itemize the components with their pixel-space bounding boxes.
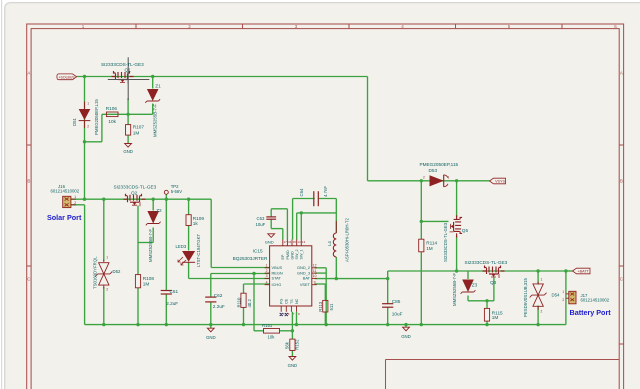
wire: [127, 98, 129, 125]
resistor R113: [323, 300, 328, 312]
capacitor C62: [205, 297, 216, 302]
transistor Q3: [483, 266, 505, 279]
svg-text:VSYS: VSYS: [495, 180, 505, 184]
wire: [335, 213, 337, 233]
svg-text:PESD5V0S1UB,315: PESD5V0S1UB,315: [523, 277, 528, 317]
svg-text:601214510002: 601214510002: [581, 298, 610, 303]
wire: [271, 208, 287, 210]
junction: [102, 323, 105, 326]
capacitor C63: [266, 217, 276, 219]
zener Z2: [146, 211, 161, 225]
svg-text:1: 1: [448, 176, 450, 180]
wire: [296, 213, 298, 240]
svg-text:TS: TS: [290, 299, 294, 304]
wire: [405, 325, 407, 328]
wire: [188, 199, 190, 215]
no-connect marks: [280, 313, 288, 316]
svg-text:IC15: IC15: [253, 249, 263, 254]
svg-text:NC: NC: [295, 298, 299, 304]
svg-text:Z3: Z3: [472, 282, 478, 287]
junction: [485, 323, 488, 326]
wire: [456, 181, 458, 217]
svg-text:+BATT: +BATT: [578, 270, 590, 274]
svg-text:Q3: Q3: [490, 280, 497, 285]
svg-text:14: 14: [297, 240, 301, 244]
svg-text:2: 2: [74, 201, 76, 205]
wire: [270, 219, 272, 228]
wire: [297, 212, 337, 214]
svg-text:B: B: [27, 179, 30, 184]
junction: [126, 113, 129, 116]
wire: [152, 199, 154, 210]
svg-text:10: 10: [313, 274, 317, 278]
wire: [211, 267, 269, 269]
svg-text:CE: CE: [285, 298, 289, 304]
junction: [325, 323, 328, 326]
junction: [300, 211, 303, 214]
wire: [152, 228, 154, 243]
svg-text:BQ25303JRTER: BQ25303JRTER: [233, 256, 268, 261]
wire: [189, 278, 270, 280]
svg-text:10uF: 10uF: [392, 311, 403, 316]
svg-text:GND: GND: [123, 149, 133, 154]
ground: [268, 234, 275, 238]
svg-text:2.2uF: 2.2uF: [213, 304, 225, 309]
resistor R106: [106, 112, 118, 117]
svg-text:10k: 10k: [268, 335, 276, 340]
svg-text:12: 12: [313, 264, 317, 268]
wire: [85, 324, 566, 326]
svg-text:VBUS: VBUS: [272, 265, 283, 270]
wire: [244, 283, 270, 285]
ground: [403, 327, 410, 331]
junction: [420, 220, 423, 223]
svg-text:1: 1: [562, 290, 564, 294]
svg-text:PG: PG: [280, 299, 284, 304]
wire: [210, 199, 212, 267]
resistor R107: [126, 125, 131, 136]
ground: [125, 144, 132, 148]
wire: [456, 236, 458, 271]
junction: [136, 323, 139, 326]
svg-text:Q2: Q2: [131, 190, 138, 195]
svg-text:40.2: 40.2: [247, 299, 252, 308]
wire: [537, 306, 539, 325]
svg-text:3: 3: [266, 274, 268, 278]
svg-text:Battery Port: Battery Port: [570, 308, 612, 317]
junction: [102, 198, 105, 201]
svg-text:1: 1: [74, 195, 76, 199]
junction: [386, 323, 389, 326]
junction: [83, 198, 86, 201]
svg-text:D52: D52: [113, 269, 121, 274]
svg-text:GND: GND: [265, 240, 274, 245]
wire: [467, 296, 469, 301]
wire: [84, 77, 86, 200]
svg-text:511: 511: [329, 303, 334, 310]
svg-text:1: 1: [266, 264, 268, 268]
svg-text:Z1: Z1: [155, 83, 161, 88]
wire: [421, 220, 448, 222]
wire: [315, 267, 327, 269]
net label VSYS: [490, 178, 506, 184]
svg-text:C61: C61: [170, 289, 179, 294]
junction: [536, 269, 539, 272]
ground: [207, 328, 214, 332]
net label +SOLBUS: [57, 74, 77, 80]
svg-text:GND: GND: [206, 335, 216, 340]
svg-text:R113: R113: [318, 301, 323, 312]
transistor Q1: [108, 57, 150, 100]
junction: [335, 277, 338, 280]
wire: [165, 294, 167, 325]
svg-text:REGN: REGN: [272, 270, 283, 275]
svg-text:R107: R107: [133, 124, 145, 129]
svg-text:TS0160DYFRQL: TS0160DYFRQL: [93, 256, 98, 289]
zener Z3: [461, 280, 476, 294]
svg-text:Z2: Z2: [156, 208, 162, 213]
svg-text:A: A: [27, 71, 30, 76]
svg-text:ICHG: ICHG: [272, 282, 282, 287]
svg-text:Solar Port: Solar Port: [47, 213, 82, 222]
junction: [455, 179, 458, 182]
svg-text:MMSZ5255B-7-F: MMSZ5255B-7-F: [153, 104, 158, 137]
svg-text:2: 2: [106, 288, 108, 292]
svg-text:4: 4: [266, 280, 268, 284]
svg-text:15: 15: [293, 240, 297, 244]
junction: [485, 299, 488, 302]
wire: [152, 104, 154, 115]
wire: [335, 199, 337, 213]
resistor R110: [241, 293, 246, 307]
junction: [386, 277, 389, 280]
svg-text:GND: GND: [401, 334, 411, 339]
svg-text:SI2333CDS-TL-GE3: SI2333CDS-TL-GE3: [443, 222, 448, 262]
junction: [291, 329, 294, 332]
svg-text:MMSZ5255B-7-F: MMSZ5255B-7-F: [148, 229, 153, 262]
wire: [211, 273, 270, 275]
capacitor C61: [161, 291, 172, 295]
wire: [103, 199, 105, 261]
wire: [188, 263, 190, 279]
wire: [127, 135, 129, 143]
svg-text:1k: 1k: [193, 221, 199, 226]
wire: [243, 284, 245, 293]
wire: [420, 252, 422, 325]
wire: [254, 330, 264, 332]
wire: [71, 204, 85, 206]
wire: [324, 312, 326, 325]
svg-text:GND: GND: [290, 251, 294, 260]
wire: [71, 198, 211, 200]
junction: [165, 198, 168, 201]
wire: [486, 321, 488, 325]
svg-text:SW_2: SW_2: [295, 249, 299, 259]
wire: [467, 271, 469, 279]
svg-text:MMSZ5255B-7-F: MMSZ5255B-7-F: [452, 273, 457, 306]
svg-text:GND_3: GND_3: [297, 270, 310, 275]
junction: [165, 323, 168, 326]
svg-text:C64: C64: [299, 188, 304, 196]
wire: [138, 242, 153, 244]
wire: [387, 271, 389, 304]
wire: [188, 226, 190, 251]
wire: [291, 351, 293, 357]
svg-text:ASPI-0530HI-LR0H-T2: ASPI-0530HI-LR0H-T2: [345, 217, 350, 262]
svg-text:B: B: [620, 179, 623, 184]
svg-text:2: 2: [87, 125, 89, 129]
svg-text:C85: C85: [392, 299, 401, 304]
resistor R109: [186, 215, 191, 226]
diode D51: [79, 102, 91, 129]
svg-text:9: 9: [314, 280, 316, 284]
LED LED3: [178, 251, 195, 265]
junction: [420, 179, 423, 182]
svg-text:1M: 1M: [143, 281, 150, 286]
svg-text:601214510002: 601214510002: [51, 189, 80, 194]
net label +BATT: [573, 268, 591, 274]
svg-text:2: 2: [541, 310, 543, 314]
inductor L4: [333, 221, 336, 257]
wire: [335, 257, 337, 279]
connector J16: [63, 196, 76, 207]
wire: [103, 287, 105, 325]
wire: [318, 198, 336, 200]
wire: [152, 77, 154, 89]
wire: [291, 312, 293, 339]
wire: [486, 301, 488, 309]
svg-text:56k: 56k: [285, 341, 290, 349]
wire: [388, 270, 566, 272]
wire: [137, 288, 139, 325]
junction: [83, 140, 86, 143]
wire: [286, 209, 288, 240]
svg-text:11: 11: [313, 269, 317, 273]
wire: [84, 205, 86, 325]
wire: [315, 272, 327, 274]
svg-text:BAT: BAT: [303, 276, 311, 281]
svg-text:EP: EP: [281, 254, 285, 259]
svg-text:Q1: Q1: [125, 68, 132, 73]
junction: [455, 269, 458, 272]
svg-text:17: 17: [283, 240, 287, 244]
svg-text:SI2333CDS-TL-GE3: SI2333CDS-TL-GE3: [465, 260, 508, 265]
wire: [325, 268, 327, 325]
junction: [151, 75, 154, 78]
resistor R115: [484, 308, 489, 321]
wire: [243, 307, 245, 324]
ground: [289, 357, 296, 361]
wire: [165, 195, 167, 291]
resistor R114: [419, 239, 424, 252]
transistor Q2: [124, 194, 146, 207]
svg-text:A: A: [620, 71, 623, 76]
svg-text:1M: 1M: [426, 246, 433, 251]
svg-text:GND: GND: [288, 363, 298, 368]
op-amp U1 charger IC15: [265, 240, 317, 312]
wire: [566, 270, 573, 272]
svg-text:R110: R110: [236, 297, 241, 308]
svg-text:SI2333CDS-TL-GE3: SI2333CDS-TL-GE3: [114, 184, 157, 189]
wire: [315, 278, 388, 280]
svg-text:R151: R151: [262, 323, 273, 328]
svg-text:+SOLBUS: +SOLBUS: [58, 76, 75, 80]
svg-text:C63: C63: [257, 216, 265, 221]
wire: [387, 308, 389, 325]
zener Z1: [145, 89, 160, 103]
wire: [368, 180, 490, 182]
svg-text:PMEG2050EP,L15: PMEG2050EP,L15: [94, 99, 99, 135]
svg-text:16: 16: [288, 240, 292, 244]
wire: [367, 77, 369, 181]
wire: [77, 76, 368, 78]
wire: [292, 199, 294, 240]
wire: [493, 278, 495, 301]
svg-text:1: 1: [541, 278, 543, 282]
resistor R152: [290, 339, 295, 350]
wire: [468, 300, 494, 302]
svg-text:1M: 1M: [492, 315, 499, 320]
svg-text:13: 13: [302, 240, 306, 244]
junction: [152, 198, 155, 201]
wire: [324, 284, 326, 300]
junction: [187, 198, 190, 201]
svg-text:LTST-C194TGKT: LTST-C194TGKT: [196, 234, 201, 267]
svg-text:R152: R152: [295, 339, 300, 350]
resistor R108: [135, 275, 140, 288]
wire: [315, 283, 326, 285]
svg-text:SW_1: SW_1: [300, 249, 304, 259]
wire: [537, 271, 539, 285]
wire: [253, 274, 255, 331]
svg-text:10k: 10k: [108, 119, 116, 124]
svg-text:1: 1: [87, 102, 89, 106]
wire: [210, 325, 212, 328]
svg-text:VSET: VSET: [300, 282, 311, 287]
svg-text:D51: D51: [72, 118, 77, 126]
wire: [270, 209, 272, 217]
wire: [85, 141, 102, 143]
wire: [101, 114, 103, 142]
TVS diode D52: [95, 260, 112, 289]
test point TP2: [164, 190, 168, 194]
svg-text:C62: C62: [214, 293, 223, 298]
junction: [295, 323, 298, 326]
wire: [282, 229, 284, 240]
wire: [296, 312, 298, 325]
svg-text:SI2333CDS-TL-GE3: SI2333CDS-TL-GE3: [101, 62, 144, 67]
capacitor C85: [382, 304, 393, 308]
wire: [210, 274, 212, 298]
junction: [536, 323, 539, 326]
svg-text:L4: L4: [327, 241, 332, 246]
svg-text:R106: R106: [106, 106, 118, 111]
junction: [420, 323, 423, 326]
svg-text:2: 2: [423, 176, 425, 180]
svg-text:GND_2: GND_2: [297, 265, 310, 270]
junction: [252, 272, 255, 275]
svg-text:PMEG2050EP,115: PMEG2050EP,115: [420, 162, 459, 167]
wire: [293, 198, 315, 200]
wire: [420, 181, 422, 239]
svg-text:1M: 1M: [133, 130, 140, 135]
svg-text:PMID: PMID: [286, 250, 290, 260]
svg-text:2.2uF: 2.2uF: [166, 301, 178, 306]
wire: [300, 213, 302, 240]
svg-text:LED3: LED3: [176, 244, 187, 249]
svg-text:1: 1: [106, 256, 108, 260]
svg-text:STAT: STAT: [272, 276, 282, 281]
wire: [271, 228, 283, 230]
junction: [564, 269, 567, 272]
junction: [209, 323, 212, 326]
junction: [242, 323, 245, 326]
TVS diode D54: [530, 282, 547, 311]
resistor R151: [264, 329, 280, 334]
svg-text:D54: D54: [552, 292, 560, 297]
svg-text:2: 2: [562, 298, 564, 302]
svg-text:D53: D53: [429, 168, 438, 173]
junction: [404, 323, 407, 326]
svg-text:5-56V: 5-56V: [171, 189, 183, 194]
connector J17: [566, 291, 576, 304]
junction: [83, 75, 86, 78]
svg-text:4.7nF: 4.7nF: [323, 186, 328, 197]
wire: [280, 330, 293, 332]
diode D53: [430, 175, 449, 187]
svg-text:10uF: 10uF: [256, 222, 266, 227]
wire: [565, 271, 567, 325]
wire: [210, 302, 212, 325]
wire: [137, 206, 139, 275]
wire: [102, 113, 153, 115]
capacitor C64: [314, 191, 319, 206]
transistor Q5: [450, 215, 463, 237]
svg-text:Q5: Q5: [462, 228, 469, 233]
svg-text:2: 2: [266, 269, 268, 273]
